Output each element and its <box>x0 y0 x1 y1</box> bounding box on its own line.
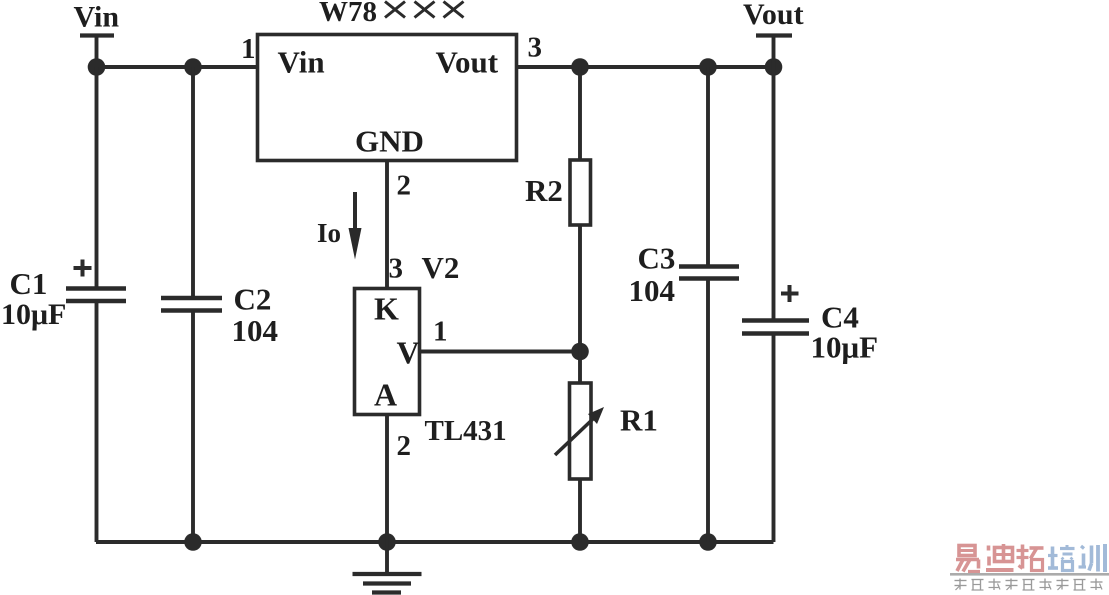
svg-text:104: 104 <box>232 313 279 348</box>
capacitor C2 <box>161 298 222 311</box>
svg-text:R2: R2 <box>525 173 563 208</box>
svg-text:3: 3 <box>389 253 404 285</box>
svg-text:10μF: 10μF <box>811 330 879 365</box>
wire R1 bottom <box>578 479 582 542</box>
svg-text:Vout: Vout <box>743 0 804 31</box>
node C3 bottom junction <box>699 533 717 551</box>
wire top rail left <box>96 65 257 69</box>
svg-text:Vin: Vin <box>278 45 325 80</box>
svg-text:V: V <box>397 335 420 371</box>
svg-text:GND: GND <box>355 124 424 159</box>
svg-text:1: 1 <box>241 33 256 65</box>
node Vout junction <box>765 58 783 76</box>
svg-text:3: 3 <box>528 32 543 64</box>
wire C4 branch upper <box>772 67 776 321</box>
svg-text:2: 2 <box>397 430 412 462</box>
svg-text:Vin: Vin <box>74 1 120 34</box>
wire C3 branch lower <box>706 279 710 542</box>
wire R2 bottom <box>578 225 582 351</box>
capacitor C1 (polarized) <box>66 260 126 302</box>
label W78xxx <box>319 0 464 28</box>
svg-text:C1: C1 <box>10 266 48 301</box>
svg-text:C3: C3 <box>638 241 676 276</box>
wire C1 branch lower <box>95 302 99 542</box>
wire V pin of V2 to node <box>420 350 580 354</box>
svg-text:Vout: Vout <box>436 45 499 80</box>
node C3 top junction <box>699 58 717 76</box>
regulator U1 W78xxx box <box>258 35 517 161</box>
svg-text:W78: W78 <box>319 0 377 28</box>
ground <box>353 542 422 593</box>
node R1 bottom junction <box>571 533 589 551</box>
svg-text:C2: C2 <box>234 282 272 317</box>
terminal Vout <box>756 36 792 68</box>
wire C3 branch upper <box>706 67 710 267</box>
wire R2 top <box>578 67 582 160</box>
node R2 top junction <box>571 58 589 76</box>
watermark <box>950 544 1109 590</box>
wire R1 top <box>578 351 582 383</box>
wire top rail right <box>517 65 774 69</box>
node feedback junction <box>571 343 589 361</box>
wire GND pin 2 of U1 <box>385 161 389 288</box>
annotation arrow Io <box>349 192 362 260</box>
wire A pin of V2 to ground rail <box>385 414 389 542</box>
svg-text:1: 1 <box>433 316 448 348</box>
svg-text:2: 2 <box>397 170 412 202</box>
node C2 bottom junction <box>184 533 202 551</box>
wire C2 branch lower <box>191 311 195 542</box>
svg-text:K: K <box>374 291 399 327</box>
shunt regulator V2 TL431 box <box>355 289 420 415</box>
node input junction <box>88 58 106 76</box>
wire C2 branch upper <box>191 67 195 299</box>
svg-text:A: A <box>374 377 397 413</box>
terminal Vin <box>80 36 114 68</box>
svg-text:V2: V2 <box>422 250 460 285</box>
node C2 top junction <box>184 58 202 76</box>
wire C4 branch lower <box>772 334 776 542</box>
svg-text:R1: R1 <box>620 403 658 438</box>
node ground junction <box>378 533 396 551</box>
wire bottom rail <box>96 540 774 544</box>
svg-text:TL431: TL431 <box>425 415 507 447</box>
svg-text:Io: Io <box>317 218 341 248</box>
svg-text:104: 104 <box>629 273 676 308</box>
wire C1 branch upper <box>95 67 99 289</box>
capacitor C3 <box>679 267 739 279</box>
resistor R1 (adjustable) <box>555 383 604 479</box>
capacitor C4 (polarized) <box>742 285 809 334</box>
resistor R2 <box>570 160 591 225</box>
svg-text:10μF: 10μF <box>1 298 66 331</box>
